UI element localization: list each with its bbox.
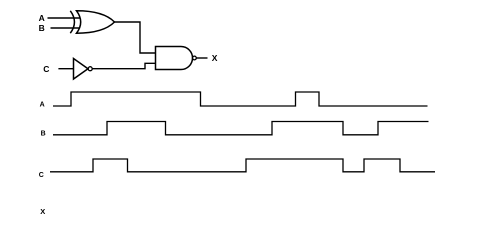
wire XOR output to NAND top input: [115, 22, 156, 53]
waveform B: [53, 122, 429, 135]
svg-text:X: X: [40, 207, 45, 216]
svg-text:B: B: [39, 23, 45, 33]
inverter U2: [74, 59, 89, 80]
svg-text:A: A: [39, 13, 45, 23]
wire C: [58, 68, 73, 70]
svg-text:B: B: [41, 131, 46, 138]
svg-text:A: A: [40, 101, 45, 108]
svg-text:C: C: [43, 64, 49, 74]
wire B: [51, 27, 80, 29]
wire inverter output to NAND bottom input: [92, 63, 155, 68]
waveform A: [53, 92, 428, 106]
NAND gate U3: [156, 47, 193, 70]
inverter bubble: [88, 67, 92, 71]
waveform C: [50, 159, 435, 172]
wire NAND output: [196, 57, 207, 59]
NAND bubble: [193, 56, 197, 60]
wire A: [48, 17, 80, 19]
svg-text:X: X: [212, 53, 218, 63]
XOR gate U1: [70, 11, 114, 33]
svg-text:C: C: [39, 172, 44, 179]
